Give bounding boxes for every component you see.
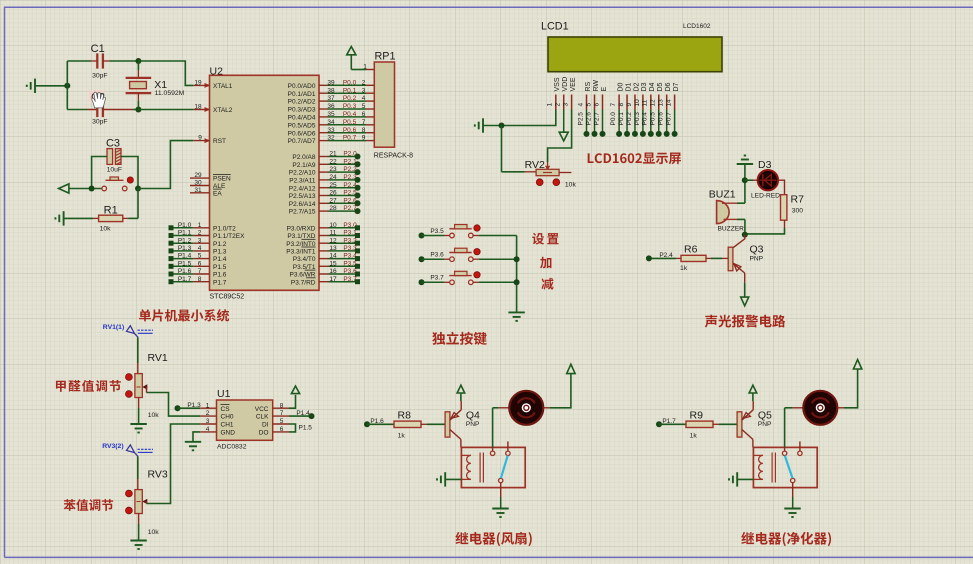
svg-text:P0.6: P0.6 xyxy=(658,112,665,126)
LED D3 LED-RED xyxy=(751,159,780,199)
label sound light alarm circuit red xyxy=(705,315,786,328)
power arrow right of motor xyxy=(567,364,575,373)
svg-text:P0.0: P0.0 xyxy=(343,79,357,86)
svg-text:D3: D3 xyxy=(641,82,648,91)
svg-text:P1.5: P1.5 xyxy=(178,260,192,267)
LCD pin D5, pin 12, net P0.5 xyxy=(650,82,664,136)
svg-text:Q3: Q3 xyxy=(750,244,764,256)
relay contact NO stub xyxy=(798,451,802,455)
svg-text:VSS: VSS xyxy=(554,77,561,91)
node reset-left junction xyxy=(89,186,95,192)
IC U1 ADC0832 body xyxy=(217,400,273,440)
svg-text:21: 21 xyxy=(329,151,337,158)
potentiometer RV1 10k xyxy=(135,352,168,419)
LCD pin E, pin 6, net P2.7 xyxy=(593,87,607,137)
LCD pin RW, pin 5, net P2.6 xyxy=(585,80,599,137)
node B junction C1-X1 xyxy=(135,58,141,64)
svg-text:P1.1: P1.1 xyxy=(178,230,192,237)
LCD pin D3, pin 10, net P0.3 xyxy=(634,82,648,136)
pin P3.4/T0, pin 14, net P3.4 terminal xyxy=(293,253,360,264)
svg-text:Q4: Q4 xyxy=(466,409,480,421)
resistor R7 300 xyxy=(781,194,805,221)
svg-text:P1.7: P1.7 xyxy=(178,276,192,283)
pin P0.7/AD7, pin 32, net P0.7 to RP1 pin 9 xyxy=(288,135,375,146)
svg-text:R1: R1 xyxy=(104,205,118,217)
svg-text:LCD1602: LCD1602 xyxy=(683,23,711,30)
terminal arrow left of reset button xyxy=(59,184,69,193)
svg-text:Q5: Q5 xyxy=(758,409,772,421)
svg-text:10k: 10k xyxy=(148,412,160,419)
wire coil ground xyxy=(737,478,753,480)
svg-text:D3: D3 xyxy=(758,159,772,171)
svg-text:P1.5: P1.5 xyxy=(213,264,227,271)
U1 pin CH1, pin 3 xyxy=(200,418,234,429)
svg-text:PNP: PNP xyxy=(758,421,772,428)
svg-text:P1.4: P1.4 xyxy=(213,256,227,263)
label MCU minimal system red xyxy=(139,309,229,321)
U1 pin DI, pin 5 xyxy=(262,418,289,429)
wire alarm rail upper xyxy=(744,164,746,203)
RV1 pin dot lower xyxy=(125,391,132,398)
svg-text:U2: U2 xyxy=(210,65,224,77)
ground below relay xyxy=(492,509,508,518)
svg-text:12: 12 xyxy=(650,99,657,107)
transistor Q3 PNP xyxy=(728,235,763,283)
svg-text:BUZZER: BUZZER xyxy=(718,226,745,233)
transistor Q5 PNP xyxy=(737,401,772,447)
svg-text:P0.4: P0.4 xyxy=(343,111,357,118)
label independent buttons red xyxy=(432,332,487,345)
wire flag to RV3 xyxy=(137,456,139,479)
svg-text:13: 13 xyxy=(329,245,337,252)
svg-text:7: 7 xyxy=(362,119,366,126)
svg-text:RST: RST xyxy=(213,138,226,145)
buzzer BUZ1 xyxy=(709,189,745,233)
LCD pin D0, pin 7, net P0.0 xyxy=(610,82,624,136)
svg-text:P3.0/RXD: P3.0/RXD xyxy=(287,225,316,232)
terminal P1.7 xyxy=(656,421,662,427)
wire motor to power arrow xyxy=(844,369,858,408)
svg-text:8: 8 xyxy=(280,402,284,409)
resistor R1 10k xyxy=(64,205,138,233)
svg-text:CS: CS xyxy=(221,406,231,413)
ground below U1 GND xyxy=(185,442,201,451)
ground symbol left of R1 xyxy=(55,211,63,225)
resistor R8 1k xyxy=(394,410,445,440)
svg-text:10k: 10k xyxy=(100,226,112,233)
relay coil box xyxy=(461,447,525,487)
wire pole to ground xyxy=(792,483,794,497)
svg-text:P2.5: P2.5 xyxy=(577,112,584,126)
svg-text:15: 15 xyxy=(329,260,337,267)
label formaldehyde adjust red xyxy=(56,380,121,392)
svg-text:P2.2/A10: P2.2/A10 xyxy=(289,170,316,177)
svg-text:10: 10 xyxy=(329,222,337,229)
RV2 wiper arrow xyxy=(547,162,549,167)
svg-text:P0.7/AD7: P0.7/AD7 xyxy=(288,138,316,145)
push button P3.7 with terminal xyxy=(419,271,517,285)
svg-text:3: 3 xyxy=(198,237,202,244)
svg-text:D7: D7 xyxy=(673,82,680,91)
svg-text:P0.5/AD5: P0.5/AD5 xyxy=(288,122,316,129)
svg-text:P2.4/A12: P2.4/A12 xyxy=(289,185,316,192)
pin P2.4/A12, pin 25, net P2.4 terminal xyxy=(289,182,361,193)
svg-text:EA: EA xyxy=(213,190,222,197)
svg-text:P2.7/A15: P2.7/A15 xyxy=(289,209,316,216)
pin P2.1/A9, pin 22, net P2.1 terminal xyxy=(292,158,360,169)
svg-text:30: 30 xyxy=(194,180,202,187)
svg-text:RV1: RV1 xyxy=(148,352,168,364)
pin P3.7/RD, pin 17, net P3.7 terminal xyxy=(291,276,360,287)
wire C2 node to XTAL2 xyxy=(138,109,193,111)
power symbol above RP1 xyxy=(347,47,356,55)
svg-text:P1.6: P1.6 xyxy=(178,268,192,275)
label relay caption red xyxy=(455,532,531,546)
pin P3.0/RXD, pin 10, net P3.0 terminal xyxy=(287,222,360,233)
label benzene adjust red xyxy=(64,499,113,511)
svg-text:6: 6 xyxy=(198,260,202,267)
power arrow above Q4 xyxy=(457,385,465,393)
svg-text:P0.3/AD3: P0.3/AD3 xyxy=(288,107,316,114)
U1 pin CS, pin 1 xyxy=(200,402,230,413)
pin P1.7 stub, pin 8, with terminal and net label P1.7 xyxy=(169,276,227,287)
svg-text:P0.1: P0.1 xyxy=(343,87,357,94)
node D3 junction xyxy=(742,177,748,183)
wire R1 to button column xyxy=(137,189,139,219)
svg-text:P0.4/AD4: P0.4/AD4 xyxy=(288,115,316,122)
svg-text:P1.6: P1.6 xyxy=(213,272,227,279)
svg-text:RV1(1): RV1(1) xyxy=(103,324,124,331)
svg-text:4: 4 xyxy=(362,95,366,102)
relay contact common xyxy=(782,451,786,455)
relay coil box xyxy=(753,447,817,487)
node reset-right junction xyxy=(135,186,141,192)
svg-text:25: 25 xyxy=(329,182,337,189)
pin RST stub, pin 9 xyxy=(205,138,211,143)
svg-text:P1.4: P1.4 xyxy=(178,253,192,260)
svg-text:D5: D5 xyxy=(657,82,664,91)
svg-text:11: 11 xyxy=(642,99,649,106)
svg-text:P2.1/A9: P2.1/A9 xyxy=(292,162,316,169)
IC U2 STC89C52 body xyxy=(210,75,320,290)
transistor Q4 PNP xyxy=(445,401,480,447)
wire button to RST pin xyxy=(138,141,193,189)
wire motor to power arrow xyxy=(550,374,571,408)
pin P0.0/AD0, pin 39, net P0.0 to RP1 pin 2 xyxy=(288,79,375,90)
svg-text:D2: D2 xyxy=(633,82,640,91)
svg-text:9: 9 xyxy=(198,135,202,142)
svg-text:6: 6 xyxy=(362,111,366,118)
wire C3 right to RST column xyxy=(121,157,138,189)
svg-text:1: 1 xyxy=(363,64,367,71)
U1 pin VCC, pin 8 xyxy=(255,402,289,413)
svg-text:17: 17 xyxy=(329,276,337,283)
svg-text:P3.5: P3.5 xyxy=(430,228,444,235)
svg-text:P3.6: P3.6 xyxy=(430,252,444,259)
svg-text:1: 1 xyxy=(206,402,210,409)
svg-text:1: 1 xyxy=(547,103,554,107)
wire Q5 emitter to power xyxy=(752,393,754,401)
svg-text:P2.4: P2.4 xyxy=(659,252,673,259)
wire GND pin to ground xyxy=(193,432,200,442)
LCD pin D6, pin 13, net P0.6 xyxy=(658,82,672,136)
svg-text:3: 3 xyxy=(206,418,210,425)
svg-text:6: 6 xyxy=(593,103,600,107)
label jian (minus) red xyxy=(541,278,553,290)
svg-text:P1.2: P1.2 xyxy=(213,241,227,248)
svg-text:PSEN: PSEN xyxy=(213,176,231,183)
terminal P1.4 xyxy=(309,413,315,419)
svg-text:3: 3 xyxy=(362,87,366,94)
svg-text:P2.5/A13: P2.5/A13 xyxy=(289,193,316,200)
svg-text:38: 38 xyxy=(327,87,335,94)
pin P2.2/A10, pin 23, net P2.2 terminal xyxy=(289,166,361,177)
wire RV1 wiper to CH0 xyxy=(147,393,201,417)
wire VSS to ground xyxy=(483,110,556,126)
svg-text:RV2: RV2 xyxy=(525,159,545,171)
LCD pin VDD, pin 2 xyxy=(555,77,569,110)
wire RV3 to ground xyxy=(138,524,140,541)
svg-text:24: 24 xyxy=(329,174,337,181)
svg-text:CLK: CLK xyxy=(256,414,269,421)
svg-text:D6: D6 xyxy=(665,82,672,91)
svg-text:P0.1/AD1: P0.1/AD1 xyxy=(288,91,316,98)
svg-text:30pF: 30pF xyxy=(92,119,108,126)
wire VCC to power xyxy=(289,395,296,408)
push button P3.6 with terminal xyxy=(419,248,517,262)
svg-text:4: 4 xyxy=(198,245,202,252)
wire CLK to P1.4 terminal xyxy=(289,415,312,417)
U1 pin CLK, pin 7 xyxy=(256,410,289,421)
svg-text:P0.0/AD0: P0.0/AD0 xyxy=(288,83,316,90)
node Q3 collector junction xyxy=(742,232,748,238)
terminal flag RV3(2) blue xyxy=(102,443,153,456)
U1 pin CH0, pin 2 xyxy=(200,410,234,421)
svg-text:8: 8 xyxy=(198,276,202,283)
relay contact pole xyxy=(791,478,795,482)
svg-text:16: 16 xyxy=(329,268,337,275)
svg-text:29: 29 xyxy=(194,172,202,179)
potentiometer RV2 10k xyxy=(502,126,577,189)
ground symbol left of oscillator xyxy=(27,79,35,93)
svg-text:4: 4 xyxy=(577,103,584,107)
wire to LED D3 xyxy=(745,179,753,181)
capacitor C3 10uF electrolytic xyxy=(106,137,122,173)
pin P3.3/INT1, pin 13, net P3.3 terminal xyxy=(286,245,360,256)
svg-text:P1.4: P1.4 xyxy=(296,410,310,417)
pin P0.2/AD2, pin 37, net P0.2 to RP1 pin 4 xyxy=(288,95,375,106)
svg-text:2: 2 xyxy=(206,410,210,417)
svg-text:RW: RW xyxy=(593,80,600,92)
terminal P1.3 xyxy=(175,405,181,411)
svg-text:D1: D1 xyxy=(625,82,632,91)
pin P2.6/A14, pin 27, net P2.6 terminal xyxy=(289,197,361,208)
svg-text:P0.1: P0.1 xyxy=(618,112,625,126)
pin P3.5/T1, pin 15, net P3.5 terminal xyxy=(293,260,360,271)
svg-text:P0.6: P0.6 xyxy=(343,127,357,134)
svg-text:ADC0832: ADC0832 xyxy=(217,443,247,450)
svg-text:2: 2 xyxy=(362,79,366,86)
wire pole to ground xyxy=(500,483,502,497)
pin P3.1/TXD, pin 11, net P3.1 terminal xyxy=(287,230,360,241)
RV3 pin dot upper xyxy=(125,490,132,497)
wire D3 to R7 xyxy=(778,180,784,195)
label jia (plus) red xyxy=(540,257,551,269)
resistor R9 1k xyxy=(686,410,737,440)
label relay caption red xyxy=(741,532,831,546)
relay contact NO stub xyxy=(506,451,510,455)
svg-text:P2.3/A11: P2.3/A11 xyxy=(289,178,316,185)
node VSS-RV2 junction xyxy=(499,123,505,129)
ground below RV1 xyxy=(130,424,146,433)
ground symbol left of LCD xyxy=(475,118,483,132)
pin P2.0/A8, pin 21, net P2.0 terminal xyxy=(292,151,360,162)
terminal flag RV1(1) blue xyxy=(103,324,153,337)
svg-text:33: 33 xyxy=(327,127,335,134)
svg-text:P2.0/A8: P2.0/A8 xyxy=(292,154,316,161)
resistor pack RP1 RESPACK-8 xyxy=(374,51,413,160)
wire C3 left to button xyxy=(92,157,107,189)
svg-text:39: 39 xyxy=(327,79,335,86)
wire RV1 to ground xyxy=(138,408,140,424)
svg-text:8: 8 xyxy=(362,127,366,134)
pin P0.1/AD1, pin 38, net P0.1 to RP1 pin 3 xyxy=(288,87,375,98)
svg-text:P0.4: P0.4 xyxy=(642,112,649,126)
ground below relay xyxy=(784,509,800,518)
svg-text:22: 22 xyxy=(329,158,337,165)
svg-text:10k: 10k xyxy=(148,529,160,536)
svg-text:LCD1: LCD1 xyxy=(541,21,569,33)
svg-text:U1: U1 xyxy=(217,388,231,400)
power arrow above U1 VCC xyxy=(291,386,299,394)
svg-text:18: 18 xyxy=(194,104,202,111)
svg-text:R7: R7 xyxy=(791,194,805,206)
pin P1.4 stub, pin 5, with terminal and net label P1.4 xyxy=(169,253,227,264)
svg-text:PNP: PNP xyxy=(466,421,480,428)
svg-text:C3: C3 xyxy=(106,137,120,149)
wire C1 node to XTAL1 xyxy=(138,61,193,85)
svg-text:35: 35 xyxy=(327,111,335,118)
svg-text:P1.7: P1.7 xyxy=(213,279,227,286)
svg-text:RV3: RV3 xyxy=(148,469,168,481)
svg-text:P3.7: P3.7 xyxy=(430,275,444,282)
crystal X1 11.0592M xyxy=(126,61,185,110)
svg-text:P0.0: P0.0 xyxy=(610,112,617,126)
svg-text:7: 7 xyxy=(198,268,202,275)
svg-text:30pF: 30pF xyxy=(92,72,108,79)
svg-text:12: 12 xyxy=(329,237,337,244)
svg-text:P2.6/A14: P2.6/A14 xyxy=(289,201,316,208)
svg-text:STC89C52: STC89C52 xyxy=(210,294,245,301)
svg-text:P1.2: P1.2 xyxy=(178,237,192,244)
svg-text:D4: D4 xyxy=(649,82,656,91)
power down arrow on VDD xyxy=(563,110,565,133)
svg-text:7: 7 xyxy=(610,103,617,107)
node P3.6 junction xyxy=(514,256,520,262)
svg-text:P0.5: P0.5 xyxy=(650,112,657,126)
svg-text:37: 37 xyxy=(327,95,335,102)
wire P1.7 to R9 xyxy=(659,423,686,425)
ground below buttons xyxy=(508,312,524,321)
pin P1.0 stub, pin 1, with terminal and net label P1.0 xyxy=(169,222,237,233)
motor (fan) xyxy=(793,391,844,425)
pin P2.5/A13, pin 26, net P2.5 terminal xyxy=(289,190,361,201)
svg-text:9: 9 xyxy=(362,135,366,142)
svg-text:1k: 1k xyxy=(690,432,698,439)
svg-text:32: 32 xyxy=(327,135,335,142)
svg-text:BUZ1: BUZ1 xyxy=(709,189,736,201)
svg-text:P1.0/T2: P1.0/T2 xyxy=(213,225,236,232)
wire alarm rail lower xyxy=(744,219,746,234)
svg-text:14: 14 xyxy=(666,99,673,107)
ground below RV3 xyxy=(130,541,146,550)
svg-text:GND: GND xyxy=(221,430,236,437)
pin P1.6 stub, pin 7, with terminal and net label P1.6 xyxy=(169,268,227,279)
pin EA stub, pin 31 xyxy=(190,192,210,194)
pin P1.1 stub, pin 2, with terminal and net label P1.1 xyxy=(169,230,246,241)
svg-text:P0.2/AD2: P0.2/AD2 xyxy=(288,99,316,106)
label LCD1602 display caption in red xyxy=(588,153,681,165)
LCD pin D4, pin 11, net P0.4 xyxy=(642,82,656,136)
svg-text:DI: DI xyxy=(262,422,269,429)
svg-text:R9: R9 xyxy=(690,410,704,422)
svg-text:XTAL1: XTAL1 xyxy=(213,83,233,90)
wire arrow to button xyxy=(69,188,104,190)
motor (fan) xyxy=(499,391,550,425)
svg-text:C1: C1 xyxy=(91,43,105,55)
ground above alarm (flipped) xyxy=(737,156,753,165)
ground left of relay coil xyxy=(729,472,737,486)
svg-text:P1.5: P1.5 xyxy=(299,425,313,432)
wire VEE to RV2 wiper xyxy=(548,110,572,163)
svg-text:RESPACK-8: RESPACK-8 xyxy=(374,153,413,160)
pin XTAL2 stub, pin 18 xyxy=(205,107,211,112)
svg-text:2: 2 xyxy=(198,230,202,237)
svg-text:8: 8 xyxy=(618,103,625,107)
pin P0.6/AD6, pin 33, net P0.6 to RP1 pin 8 xyxy=(288,127,375,138)
pin P0.5/AD5, pin 34, net P0.5 to RP1 pin 7 xyxy=(288,119,375,129)
pin P3.6/WR, pin 16, net P3.6 terminal xyxy=(289,268,360,279)
svg-text:34: 34 xyxy=(327,119,335,126)
svg-text:26: 26 xyxy=(329,190,337,197)
RV2 unconnected pin dot left xyxy=(536,179,543,186)
svg-text:1k: 1k xyxy=(680,265,688,272)
wire RV3 wiper to CH1 xyxy=(147,424,201,504)
pin P2.7/A15, pin 28, net P2.7 terminal xyxy=(289,205,361,216)
svg-text:P0.2: P0.2 xyxy=(343,95,357,102)
svg-text:4: 4 xyxy=(206,426,210,433)
relay switch blade cyan xyxy=(501,456,508,479)
svg-text:P0.5: P0.5 xyxy=(343,119,357,126)
wire Q4 emitter to power xyxy=(460,393,462,401)
pin P3.2/INT0, pin 12, net P3.2 terminal xyxy=(286,237,360,248)
pin P1.5 stub, pin 6, with terminal and net label P1.5 xyxy=(169,260,227,271)
svg-text:P0.2: P0.2 xyxy=(626,112,633,126)
svg-text:VEE: VEE xyxy=(570,77,577,91)
terminal P2.4 xyxy=(646,255,652,261)
svg-text:P1.3: P1.3 xyxy=(178,245,192,252)
svg-text:P2.7: P2.7 xyxy=(593,112,600,126)
wire P1.3 to CS xyxy=(178,407,201,409)
LCD pin D7, pin 14, net P0.7 xyxy=(666,82,680,136)
svg-text:P0.3: P0.3 xyxy=(343,103,357,110)
svg-text:5: 5 xyxy=(280,418,284,425)
LCD pin RS, pin 4, net P2.5 xyxy=(577,81,591,136)
LCD pin VEE, pin 3 xyxy=(563,77,577,109)
svg-text:14: 14 xyxy=(329,253,337,260)
LCD pin D2, pin 9, net P0.2 xyxy=(626,82,640,136)
RV2 unconnected pin dot right xyxy=(553,179,560,186)
